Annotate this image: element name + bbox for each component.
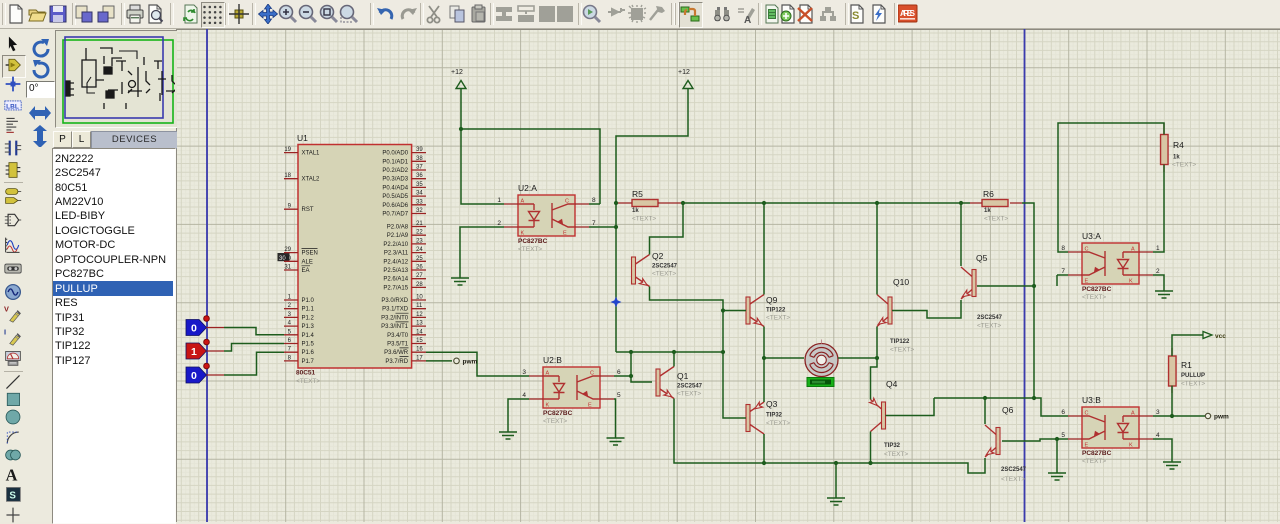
svg-text:E: E [1085, 443, 1089, 449]
svg-text:1: 1 [191, 346, 197, 358]
svg-text:2SC2547: 2SC2547 [977, 315, 1003, 321]
svg-text:13: 13 [416, 321, 423, 327]
svg-text:1k: 1k [984, 208, 991, 214]
svg-text:XTAL1: XTAL1 [302, 151, 321, 157]
svg-text:RST: RST [302, 207, 314, 213]
svg-text:P0.4/AD4: P0.4/AD4 [382, 185, 408, 191]
svg-text:Q3: Q3 [766, 399, 778, 409]
svg-text:22: 22 [416, 230, 423, 236]
svg-text:R1: R1 [1181, 360, 1192, 370]
svg-text:E: E [563, 231, 567, 237]
svg-text:14: 14 [416, 329, 423, 335]
svg-text:ALE: ALE [302, 259, 313, 265]
svg-text:K: K [546, 403, 550, 409]
svg-text:11: 11 [416, 303, 423, 309]
svg-text:80C51: 80C51 [296, 370, 316, 377]
svg-text:19: 19 [284, 147, 291, 153]
svg-text:12: 12 [416, 312, 423, 318]
svg-text:pwm: pwm [463, 358, 478, 365]
svg-text:39: 39 [416, 147, 423, 153]
svg-text:P0.6/AD6: P0.6/AD6 [382, 203, 408, 209]
svg-text:5: 5 [1061, 432, 1065, 439]
svg-text:25: 25 [416, 256, 423, 262]
svg-text:C: C [590, 371, 594, 377]
svg-text:17: 17 [416, 355, 423, 361]
svg-text:<TEXT>: <TEXT> [518, 246, 542, 253]
svg-text:P2.1/A9: P2.1/A9 [387, 233, 409, 239]
svg-text:4: 4 [1156, 432, 1160, 439]
svg-text:E: E [1085, 279, 1089, 285]
svg-text:P0.0/AD0: P0.0/AD0 [382, 151, 408, 157]
svg-text:Q10: Q10 [893, 277, 909, 287]
svg-text:P1.6: P1.6 [302, 350, 315, 356]
svg-text:P3.2/INT0: P3.2/INT0 [381, 315, 409, 321]
svg-text:38: 38 [416, 156, 423, 162]
svg-text:1k: 1k [1173, 155, 1180, 161]
svg-text:<TEXT>: <TEXT> [632, 216, 656, 223]
svg-text:R6: R6 [983, 189, 994, 199]
svg-text:1: 1 [497, 197, 501, 204]
svg-text:<TEXT>: <TEXT> [1082, 294, 1106, 301]
svg-text:<TEXT>: <TEXT> [984, 216, 1008, 223]
svg-text:27: 27 [416, 273, 423, 279]
svg-text:8: 8 [592, 197, 596, 204]
svg-text:7: 7 [1061, 268, 1065, 275]
svg-text:TIP122: TIP122 [766, 308, 786, 314]
svg-text:2: 2 [497, 220, 501, 227]
svg-text:<TEXT>: <TEXT> [884, 451, 908, 458]
svg-text:7: 7 [592, 220, 596, 227]
svg-text:35: 35 [416, 182, 423, 188]
svg-text:ARES: ARES [900, 9, 916, 18]
svg-text:10: 10 [416, 295, 423, 301]
svg-text:4: 4 [522, 392, 526, 399]
svg-text:37: 37 [416, 165, 423, 171]
svg-text:C: C [565, 199, 569, 205]
svg-text:P0.2/AD2: P0.2/AD2 [382, 168, 408, 174]
svg-text:R5: R5 [632, 189, 643, 199]
svg-text:R4: R4 [1173, 140, 1184, 150]
svg-text:0: 0 [191, 370, 197, 382]
svg-text:U1: U1 [297, 133, 308, 143]
svg-text:32: 32 [416, 208, 423, 214]
svg-text:1: 1 [1156, 245, 1160, 252]
svg-text:31: 31 [284, 265, 291, 271]
svg-text:29: 29 [284, 247, 291, 253]
svg-text:Q9: Q9 [766, 295, 778, 305]
svg-text:K: K [521, 231, 525, 237]
svg-text:1k: 1k [632, 208, 639, 214]
svg-text:K: K [1129, 279, 1133, 285]
svg-text:8: 8 [1061, 245, 1065, 252]
svg-text:P3.7/RD: P3.7/RD [385, 359, 408, 365]
svg-text:PC827BC: PC827BC [518, 238, 548, 245]
svg-text:<TEXT>: <TEXT> [890, 347, 914, 354]
svg-text:P2.7/A15: P2.7/A15 [383, 285, 408, 291]
svg-text:<TEXT>: <TEXT> [766, 420, 790, 427]
svg-text:<TEXT>: <TEXT> [1082, 458, 1106, 465]
svg-text:2SC2547: 2SC2547 [677, 384, 703, 390]
svg-text:TIP122: TIP122 [890, 339, 910, 345]
svg-text:U3:B: U3:B [1082, 395, 1101, 405]
svg-text:P3.3/INT1: P3.3/INT1 [381, 324, 409, 330]
svg-text:PSEN: PSEN [302, 251, 318, 257]
svg-text:2SC2547: 2SC2547 [652, 264, 678, 270]
svg-text:Q4: Q4 [886, 379, 898, 389]
svg-text:3: 3 [522, 369, 526, 376]
svg-text:5: 5 [617, 392, 621, 399]
svg-text:<TEXT>: <TEXT> [977, 323, 1001, 330]
svg-text:TIP32: TIP32 [766, 413, 783, 419]
svg-text:PC827BC: PC827BC [1082, 286, 1112, 293]
svg-text:<TEXT>: <TEXT> [652, 271, 676, 278]
svg-text:<TEXT>: <TEXT> [677, 391, 701, 398]
svg-text:34: 34 [416, 191, 423, 197]
svg-text:A: A [744, 15, 751, 24]
svg-text:P2.3/A11: P2.3/A11 [384, 251, 409, 257]
svg-text:<TEXT>: <TEXT> [1172, 162, 1196, 169]
svg-text:30: 30 [284, 256, 291, 262]
svg-text:A: A [546, 371, 550, 377]
svg-text:+12: +12 [678, 69, 690, 76]
svg-text:P2.5/A13: P2.5/A13 [383, 268, 408, 274]
svg-text:V: V [4, 305, 9, 314]
svg-text:PC827BC: PC827BC [543, 410, 573, 417]
svg-text:P1.5: P1.5 [302, 342, 315, 348]
svg-text:P0.1/AD1: P0.1/AD1 [382, 159, 408, 165]
svg-text:pwm: pwm [1214, 413, 1229, 420]
svg-text:U2:B: U2:B [543, 355, 562, 365]
svg-text:P3.6/WR: P3.6/WR [384, 350, 409, 356]
svg-text:33: 33 [416, 199, 423, 205]
svg-text:6: 6 [617, 369, 621, 376]
svg-text:TIP32: TIP32 [884, 443, 901, 449]
svg-text:<TEXT>: <TEXT> [766, 315, 790, 322]
svg-text:15: 15 [416, 338, 423, 344]
svg-text:Q1: Q1 [677, 371, 689, 381]
svg-text:6: 6 [1061, 409, 1065, 416]
svg-text:C: C [1085, 411, 1089, 417]
svg-text:U3:A: U3:A [1082, 231, 1101, 241]
svg-text:P0.3/AD3: P0.3/AD3 [382, 177, 408, 183]
svg-text:23: 23 [416, 238, 423, 244]
svg-text:P1.0: P1.0 [302, 298, 315, 304]
svg-text:K: K [1129, 443, 1133, 449]
svg-text:vcc: vcc [1215, 333, 1226, 340]
svg-text:S: S [9, 491, 16, 502]
svg-text:2: 2 [1156, 268, 1160, 275]
svg-text:P2.4/A12: P2.4/A12 [383, 259, 408, 265]
svg-text:P3.4/T0: P3.4/T0 [387, 333, 409, 339]
svg-text:PULLUP: PULLUP [1181, 373, 1205, 379]
svg-text:I: I [4, 328, 6, 337]
svg-text:Q6: Q6 [1002, 405, 1014, 415]
svg-text:U2:A: U2:A [518, 183, 537, 193]
svg-text:P1.3: P1.3 [302, 324, 315, 330]
svg-text:XTAL2: XTAL2 [302, 177, 321, 183]
svg-text:A: A [1131, 247, 1135, 253]
svg-text:EA: EA [302, 268, 310, 274]
svg-text:LBL: LBL [6, 103, 19, 110]
svg-text:E: E [588, 403, 592, 409]
svg-text:3: 3 [1156, 409, 1160, 416]
svg-text:18: 18 [284, 173, 291, 179]
svg-text:2SC2547: 2SC2547 [1001, 467, 1027, 473]
svg-text:<TEXT>: <TEXT> [543, 418, 567, 425]
svg-text:21: 21 [416, 221, 423, 227]
svg-text:A: A [521, 199, 525, 205]
svg-text:<TEXT>: <TEXT> [296, 378, 320, 385]
svg-text:<TEXT>: <TEXT> [1001, 476, 1025, 483]
svg-text:P3.5/T1: P3.5/T1 [387, 342, 409, 348]
svg-text:P0.7/AD7: P0.7/AD7 [382, 212, 408, 218]
svg-text:+12: +12 [451, 69, 463, 76]
svg-text:A: A [1131, 411, 1135, 417]
svg-text:<TEXT>: <TEXT> [1181, 381, 1205, 388]
svg-text:Q5: Q5 [976, 253, 988, 263]
svg-text:PC827BC: PC827BC [1082, 450, 1112, 457]
svg-text:P2.6/A14: P2.6/A14 [383, 277, 408, 283]
svg-text:P3.0/RXD: P3.0/RXD [381, 298, 408, 304]
svg-text:28: 28 [416, 282, 423, 288]
svg-text:P1.4: P1.4 [302, 333, 315, 339]
svg-text:36: 36 [416, 173, 423, 179]
svg-text:Q2: Q2 [652, 251, 664, 261]
svg-text:C: C [1085, 247, 1089, 253]
svg-text:P1.7: P1.7 [302, 359, 315, 365]
svg-text:P2.0/A8: P2.0/A8 [387, 225, 409, 231]
svg-text:16: 16 [416, 347, 423, 353]
svg-text:P3.1/TXD: P3.1/TXD [382, 307, 409, 313]
svg-text:26: 26 [416, 265, 423, 271]
svg-text:P0.5/AD5: P0.5/AD5 [382, 194, 408, 200]
svg-text:P1.2: P1.2 [302, 315, 315, 321]
svg-text:A: A [6, 466, 18, 483]
svg-text:0: 0 [191, 322, 197, 334]
svg-text:P1.1: P1.1 [302, 307, 315, 313]
svg-text:S: S [852, 10, 859, 22]
svg-text:P2.2/A10: P2.2/A10 [383, 242, 408, 248]
svg-text:24: 24 [416, 247, 423, 253]
